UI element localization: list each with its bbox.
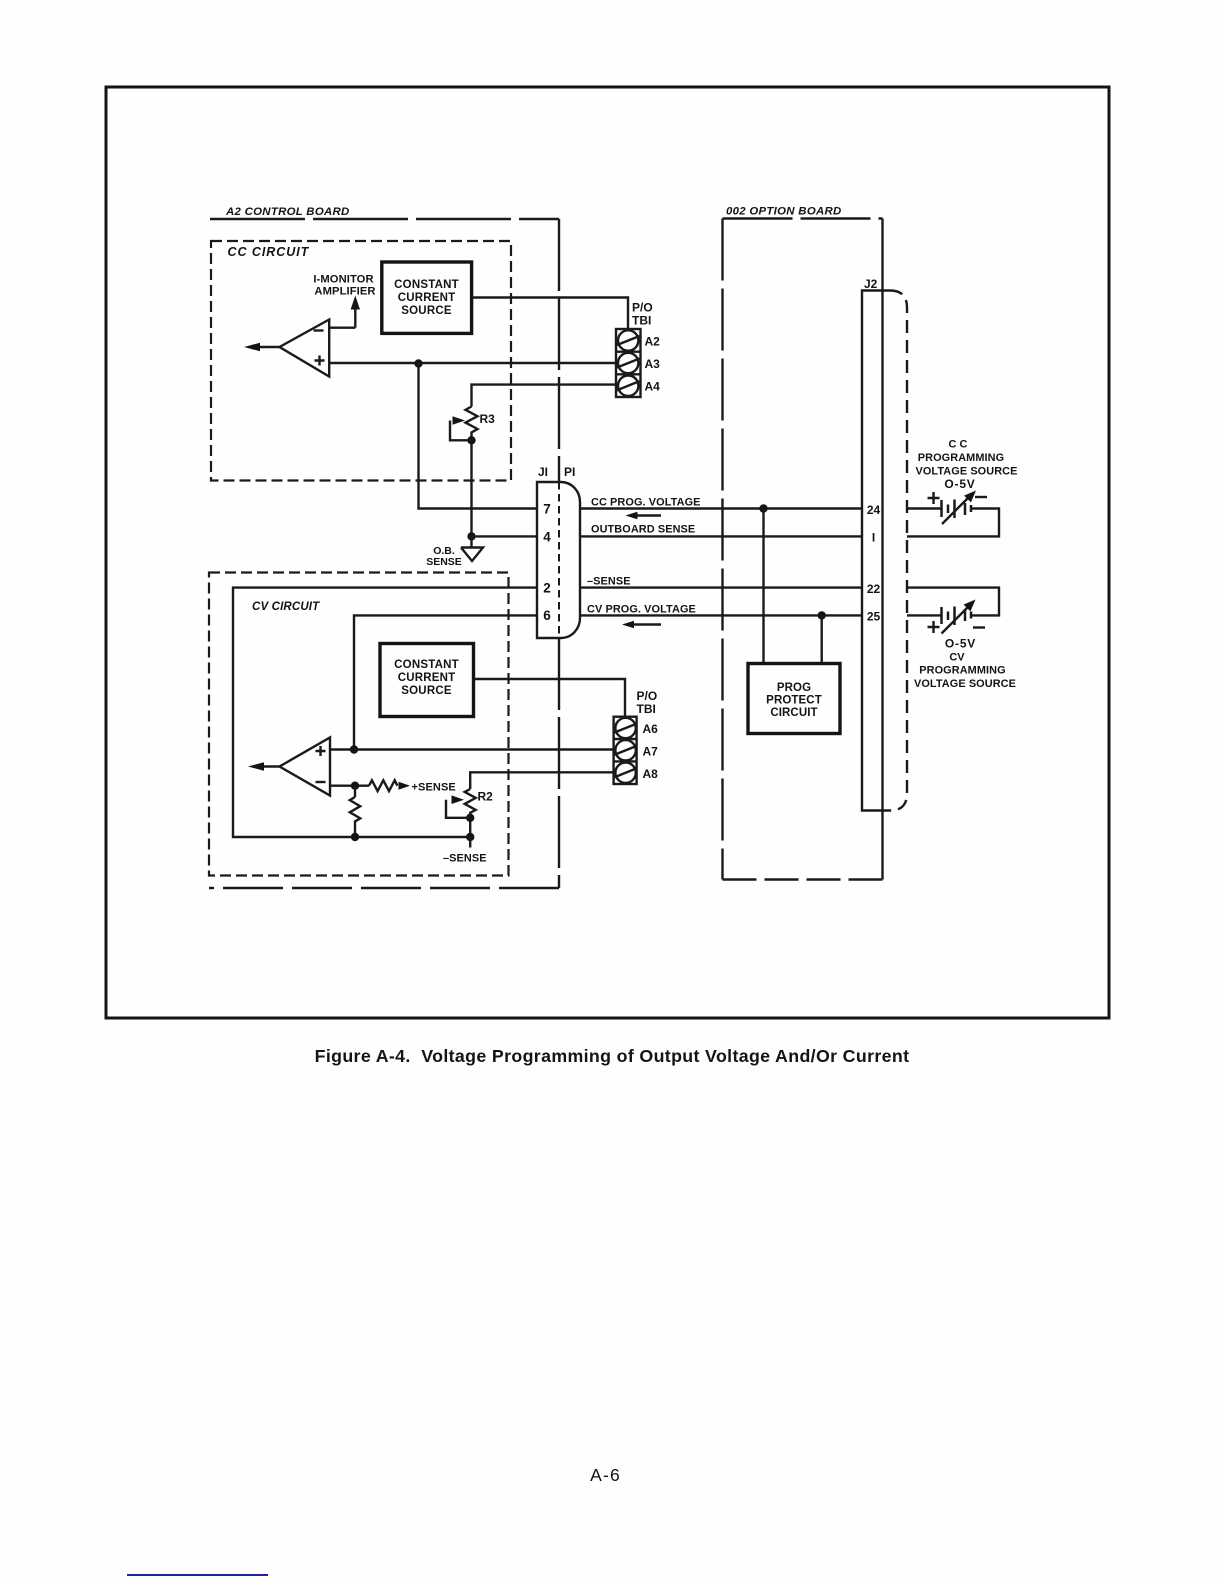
terminal A3 — [618, 353, 638, 373]
resistor R2 (variable) — [465, 789, 476, 813]
svg-text:C C: C C — [948, 439, 967, 451]
wire terminal A8 row to R2 — [470, 772, 613, 789]
node: pin 4 / O.B. sense junction — [467, 532, 475, 540]
svg-text:2: 2 — [543, 581, 551, 596]
002 option board boundary — [723, 217, 883, 219]
connector J2 body — [862, 291, 890, 811]
svg-text:PROG: PROG — [777, 682, 811, 694]
wire OUTBOARD SENSE row — [580, 535, 862, 537]
B1 plus sign — [928, 492, 940, 504]
-SENSE stub — [469, 837, 471, 848]
constant current source box (CV) — [380, 644, 474, 717]
terminal A6 — [615, 718, 635, 738]
node: R3 bottom / wiper — [467, 436, 475, 444]
CV circuit box — [209, 573, 509, 876]
svg-text:P/O: P/O — [637, 689, 658, 703]
svg-text:7: 7 — [543, 502, 551, 517]
battery B1: CC programming voltage source — [942, 500, 972, 519]
B2 variable arrow — [942, 607, 969, 634]
wire pin 6 to CV amp plus — [354, 615, 537, 749]
svg-text:AMPLIFIER: AMPLIFIER — [314, 286, 375, 298]
wire junction to prog protect circuit — [762, 509, 764, 664]
svg-text:CURRENT: CURRENT — [398, 292, 456, 304]
svg-text:J2: J2 — [864, 277, 878, 291]
terminal A8 — [615, 763, 635, 783]
wire U2 output arrow — [261, 765, 280, 767]
node: CC prog / prog protect junction — [759, 504, 767, 512]
wire U2 minus input row — [330, 785, 369, 787]
battery B2: CV programming voltage source — [942, 607, 972, 626]
svg-text:PROGRAMMING: PROGRAMMING — [919, 665, 1005, 677]
svg-text:SOURCE: SOURCE — [401, 685, 452, 697]
node: minus input junction — [351, 782, 359, 790]
wire U1 output arrow — [257, 346, 280, 348]
node: pin 6 / plus row junction — [350, 745, 358, 753]
node: resistor / -sense bus — [351, 833, 359, 841]
wire CC source to terminal A2 — [472, 298, 628, 330]
decorative blue rule — [127, 1574, 268, 1576]
wire pin 2 loop (-sense) — [233, 588, 537, 837]
svg-text:SOURCE: SOURCE — [401, 305, 452, 317]
svg-text:R2: R2 — [478, 790, 494, 804]
A2 control board boundary — [210, 218, 559, 220]
svg-text:6: 6 — [543, 608, 551, 623]
U2 minus sign — [316, 781, 326, 783]
svg-text:VOLTAGE SOURCE: VOLTAGE SOURCE — [915, 466, 1017, 478]
svg-text:JI: JI — [538, 465, 548, 479]
B2 minus sign — [973, 626, 985, 628]
page border — [106, 87, 1109, 1018]
wire junction down to pin 7 — [419, 364, 538, 509]
svg-text:25: 25 — [867, 610, 881, 624]
svg-text:CC CIRCUIT: CC CIRCUIT — [228, 245, 310, 259]
svg-text:R3: R3 — [480, 412, 496, 426]
U1 plus sign — [315, 356, 325, 366]
wire J2-24 to CC programming source — [907, 507, 942, 509]
svg-text:A4: A4 — [645, 380, 661, 394]
wire junction to prog protect circuit — [821, 615, 823, 663]
B1 minus sign — [975, 496, 987, 498]
svg-text:24: 24 — [867, 503, 881, 517]
terminal A2 — [618, 330, 638, 350]
terminal block TB1 lower — [614, 717, 637, 784]
R3 bottom lead — [470, 434, 472, 537]
terminal block TB1 upper — [616, 329, 641, 397]
002 option board right edge — [881, 219, 883, 880]
wire CC PROG VOLTAGE row — [580, 507, 862, 509]
CC circuit box — [211, 241, 511, 481]
wire -SENSE row — [580, 586, 862, 588]
prog protect circuit box — [748, 664, 840, 734]
svg-text:CC PROG. VOLTAGE: CC PROG. VOLTAGE — [591, 497, 701, 509]
svg-text:A2: A2 — [645, 335, 661, 349]
op-amp U2 (CV amplifier) — [280, 738, 331, 796]
op-amp U1 (I-monitor amplifier) — [280, 320, 330, 377]
svg-text:4: 4 — [543, 530, 551, 545]
constant current source box (CC) — [382, 262, 472, 333]
B1 variable arrow — [942, 497, 969, 524]
wire U1 plus input row to terminal A3 — [329, 362, 616, 364]
svg-text:Figure A-4. Voltage Programmi: Figure A-4. Voltage Programming of Outpu… — [315, 1046, 910, 1066]
svg-text:–SENSE: –SENSE — [587, 576, 631, 588]
svg-text:A-6: A-6 — [590, 1465, 621, 1485]
resistor (to +sense) — [369, 780, 397, 791]
svg-text:I: I — [872, 531, 875, 545]
wire junction to pin 4 — [472, 535, 538, 537]
B2 plus sign — [928, 621, 940, 633]
direction arrow (CV prog) — [632, 623, 661, 625]
svg-text:OUTBOARD SENSE: OUTBOARD SENSE — [591, 524, 695, 536]
svg-text:–SENSE: –SENSE — [443, 853, 487, 865]
wire CV PROG VOLTAGE row — [580, 614, 862, 616]
O.B. sense symbol — [461, 536, 483, 561]
svg-text:O-5V: O-5V — [944, 477, 975, 491]
resistor R3 (variable) — [466, 407, 478, 434]
node: R2 bottom / wiper — [466, 814, 474, 822]
svg-text:TBI: TBI — [637, 702, 656, 716]
J1/P1 mating line (dashed) — [558, 482, 560, 638]
R2 wiper arm — [446, 800, 470, 818]
R3 wiper arm — [450, 421, 472, 441]
svg-text:CURRENT: CURRENT — [398, 672, 456, 684]
node: CV prog / prog protect junction — [818, 611, 826, 619]
svg-text:A3: A3 — [645, 357, 661, 371]
U1 minus sign — [314, 329, 324, 331]
terminal A4 — [618, 376, 638, 396]
svg-text:+SENSE: +SENSE — [412, 782, 456, 794]
svg-text:PI: PI — [564, 465, 575, 479]
svg-text:A2 CONTROL BOARD: A2 CONTROL BOARD — [225, 206, 350, 218]
connector J1/P1 body — [537, 482, 580, 638]
svg-text:CIRCUIT: CIRCUIT — [770, 707, 817, 719]
node: plus input / pin 7 junction — [414, 359, 422, 367]
wire terminal A4 row to R3 — [472, 385, 617, 407]
wire U2 plus row to terminal A7 — [330, 748, 614, 750]
U2 plus sign — [316, 746, 326, 756]
svg-text:VOLTAGE SOURCE: VOLTAGE SOURCE — [914, 678, 1016, 690]
svg-text:22: 22 — [867, 582, 881, 596]
svg-text:I-MONITOR: I-MONITOR — [313, 274, 373, 286]
wire J2-25 to CV programming source — [907, 614, 942, 616]
svg-text:CONSTANT: CONSTANT — [394, 279, 459, 291]
svg-text:CV: CV — [949, 652, 965, 664]
svg-text:CV CIRCUIT: CV CIRCUIT — [252, 601, 320, 613]
svg-text:TBI: TBI — [632, 314, 651, 328]
svg-text:A7: A7 — [643, 745, 659, 759]
wire CC source return to J2-1 — [907, 509, 999, 537]
svg-text:A6: A6 — [643, 722, 659, 736]
label-pointer arrow up to I-MONITOR AMPLIFIER — [354, 306, 356, 328]
svg-text:CONSTANT: CONSTANT — [394, 659, 459, 671]
svg-text:PROTECT: PROTECT — [766, 695, 822, 707]
R2 bottom lead — [469, 812, 471, 837]
svg-text:SENSE: SENSE — [426, 556, 462, 568]
resistor (minus input to -sense bus) — [354, 786, 356, 797]
+SENSE arrow — [399, 782, 411, 790]
wire J2-22 to CV source return — [907, 588, 999, 616]
wire U1 minus input stub — [329, 327, 355, 329]
wire CV source to terminal A6 — [474, 679, 626, 717]
svg-text:PROGRAMMING: PROGRAMMING — [918, 452, 1004, 464]
svg-text:P/O: P/O — [632, 301, 653, 315]
svg-text:A8: A8 — [643, 767, 659, 781]
svg-text:CV PROG. VOLTAGE: CV PROG. VOLTAGE — [587, 604, 696, 616]
svg-text:002 OPTION BOARD: 002 OPTION BOARD — [726, 206, 842, 218]
node: R2 / -sense bus — [466, 833, 474, 841]
direction arrow (CC prog) — [635, 514, 661, 516]
svg-text:O-5V: O-5V — [945, 637, 976, 651]
terminal A7 — [615, 740, 635, 760]
connector J2 mating bulge (dashed) — [890, 291, 907, 811]
